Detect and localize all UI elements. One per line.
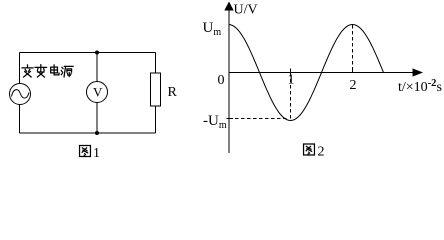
wire right upper segment (155, 53, 157, 74)
AC source sine symbol (12, 90, 30, 98)
dashed vertical at t=1 to minimum (290, 73, 292, 120)
node top junction (95, 51, 99, 55)
sine curve U(t) (229, 25, 384, 121)
dashed horizontal -Um line (235, 118, 288, 120)
wire left upper segment (19, 53, 21, 84)
node bottom junction (95, 131, 99, 135)
label 交变电源 char 变 (35, 65, 46, 77)
tick at t=2 (352, 69, 354, 73)
wire top of circuit loop (20, 52, 156, 54)
svg-text:2: 2 (318, 145, 325, 160)
svg-text:1: 1 (93, 146, 100, 161)
wire bottom of circuit loop (20, 132, 156, 134)
AC source G1 circle (10, 84, 31, 105)
label 交变电源 char 交 (22, 65, 33, 77)
tick at t=1 (290, 69, 292, 73)
y-axis arrow head (224, 2, 233, 11)
x-axis t axis line (229, 72, 413, 74)
y-axis U axis line (228, 8, 230, 153)
x-axis arrow head (413, 68, 424, 76)
resistor R body (151, 73, 161, 106)
wire left lower segment (19, 105, 21, 134)
wire middle branch upper (96, 53, 98, 82)
svg-text:1: 1 (288, 73, 295, 88)
label 图1 char 图 (80, 146, 91, 157)
svg-text:R: R (168, 85, 178, 100)
svg-text:0: 0 (218, 73, 225, 88)
dashed vertical at t=2 from peak (352, 25, 354, 72)
label 交变电源 char 源 (61, 66, 73, 77)
wire right lower segment (155, 106, 157, 133)
svg-text:U/V: U/V (234, 3, 258, 18)
voltmeter V1 circle (87, 82, 108, 103)
label 图2 char 图 (304, 144, 315, 155)
wire middle branch lower (96, 103, 98, 134)
tick at -Um on y-axis (227, 118, 234, 120)
label 交变电源 char 电 (51, 65, 59, 75)
svg-text:V: V (93, 85, 103, 100)
svg-text:2: 2 (350, 78, 357, 93)
